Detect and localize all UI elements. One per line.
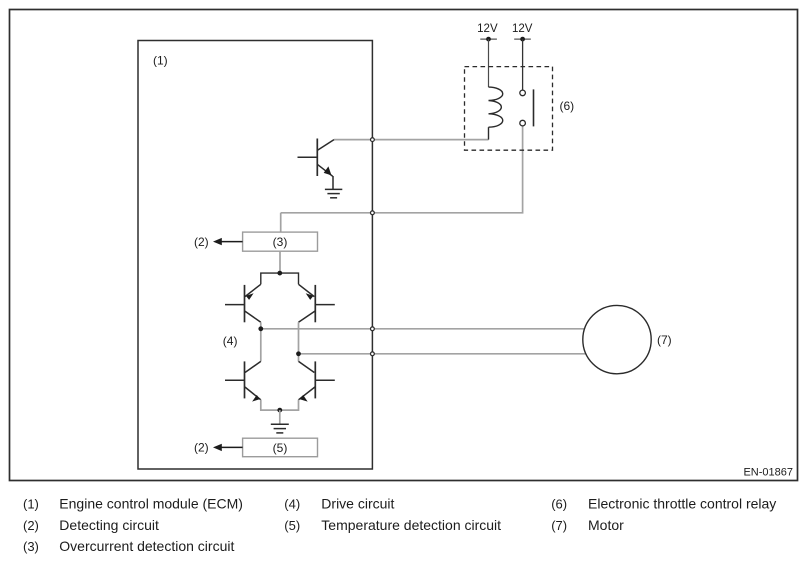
label (3) [273, 235, 288, 249]
legend row 3 [23, 538, 234, 554]
H-bridge top rail [261, 273, 299, 284]
svg-text:Overcurrent detection circuit: Overcurrent detection circuit [59, 538, 234, 554]
junction right output [296, 351, 301, 356]
svg-text:12V: 12V [477, 23, 498, 35]
wire H-bridge left output to motor [261, 328, 590, 330]
svg-text:(7): (7) [551, 518, 567, 533]
label (7) [657, 333, 672, 347]
svg-text:Drive circuit: Drive circuit [321, 496, 394, 512]
wire Q3 collector to right output node [298, 322, 300, 361]
svg-text:EN-01867: EN-01867 [743, 467, 793, 479]
svg-text:(4): (4) [284, 497, 300, 512]
svg-text:Motor: Motor [588, 517, 624, 533]
junction top [277, 271, 282, 276]
relay coil L1 [489, 87, 503, 140]
figure number EN-01867 [743, 467, 793, 479]
svg-text:(6): (6) [560, 99, 575, 113]
transistor Q3 (top-right) [299, 284, 335, 322]
label (5) [273, 441, 288, 455]
transistor Q4 (bottom-left) [225, 361, 261, 401]
arrow to detecting circuit (bottom) [213, 444, 243, 451]
motor M1 (7) [583, 305, 651, 373]
legend row 2 [23, 517, 624, 533]
svg-text:(2): (2) [194, 441, 209, 455]
svg-text:(5): (5) [273, 441, 288, 455]
wire 12V-2 to switch [522, 39, 524, 90]
svg-text:(1): (1) [153, 53, 168, 67]
transistor Q1 [298, 139, 335, 190]
transistor Q2 (top-left) [225, 284, 261, 322]
relay switch contacts [520, 89, 534, 126]
svg-text:(3): (3) [273, 235, 288, 249]
svg-text:Detecting circuit: Detecting circuit [59, 517, 159, 533]
12V terminal 1 [480, 37, 497, 42]
svg-text:(7): (7) [657, 333, 672, 347]
svg-text:(4): (4) [223, 334, 238, 348]
svg-text:Temperature detection circuit: Temperature detection circuit [321, 517, 501, 533]
svg-text:(2): (2) [23, 518, 39, 533]
12V label 1 [477, 23, 498, 35]
ground of H-bridge [271, 424, 289, 433]
wire box (3) to H-bridge [279, 251, 281, 271]
H-bridge bottom rail [261, 400, 299, 410]
node on ECM edge at motor wire B [371, 352, 375, 356]
arrow to detecting circuit (top) [213, 238, 243, 245]
svg-text:(2): (2) [194, 235, 209, 249]
label (4) [223, 334, 238, 348]
wire node to box (3) [280, 213, 282, 232]
node on ECM edge at motor wire A [371, 327, 375, 331]
ground of Q1 [325, 189, 342, 197]
label (6) [560, 99, 575, 113]
svg-text:12V: 12V [512, 23, 533, 35]
svg-text:(3): (3) [23, 539, 39, 554]
label (1) [153, 53, 168, 67]
svg-text:Electronic throttle control re: Electronic throttle control relay [588, 496, 776, 512]
wire H-bridge right output to motor [299, 353, 591, 355]
wire bottom junction to ground [279, 410, 281, 424]
wire Q2 collector to left output node [260, 322, 262, 361]
legend row 1 [23, 496, 776, 512]
svg-text:Engine control module (ECM): Engine control module (ECM) [59, 496, 243, 512]
label (2) top [194, 235, 209, 249]
relay dashed box (6) [465, 67, 553, 151]
label (2) bottom [194, 441, 209, 455]
12V terminal 2 [514, 37, 531, 42]
junction left output [258, 326, 263, 331]
node on ECM edge at detection wire [371, 211, 375, 215]
wire relay switch to detection node [281, 126, 523, 213]
transistor Q5 (bottom-right) [299, 361, 335, 401]
wire 12V-1 to coil [488, 39, 490, 87]
12V label 2 [512, 23, 533, 35]
svg-text:(5): (5) [284, 518, 300, 533]
node on ECM edge at collector wire [371, 138, 375, 142]
svg-text:(6): (6) [551, 497, 567, 512]
ECM box U1 (1) [138, 41, 372, 470]
box (3) overcurrent detection [243, 232, 318, 251]
wire collector node to relay coil [334, 139, 489, 141]
svg-text:(1): (1) [23, 497, 39, 512]
junction bottom [277, 408, 282, 413]
box (5) temperature detection [243, 438, 318, 457]
